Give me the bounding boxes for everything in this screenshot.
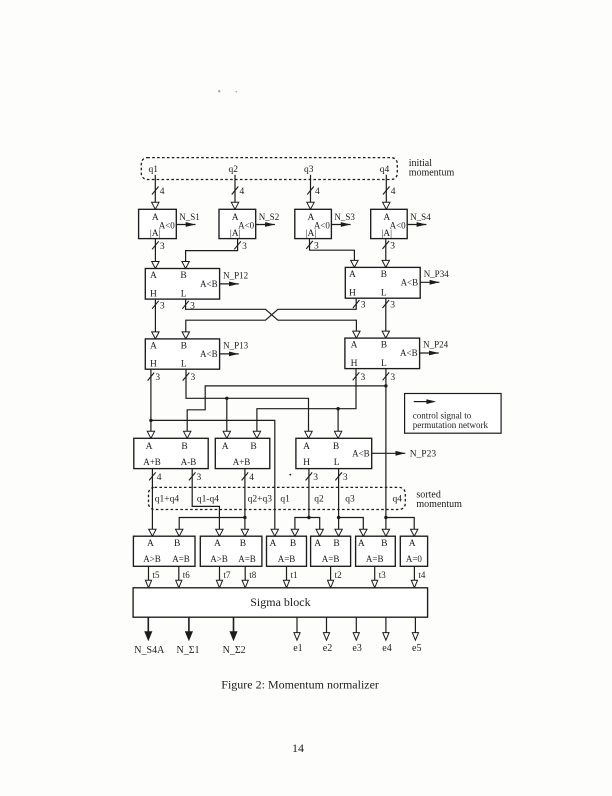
wire q1 to S1 with bus width 4 — [152, 175, 165, 210]
control output N_S1 of S1 — [176, 212, 200, 227]
svg-text:N_P23: N_P23 — [410, 449, 437, 459]
svg-text:H: H — [303, 458, 310, 468]
svg-text:3: 3 — [390, 241, 395, 251]
wire S4 |A| to P34 input B (3 bits) — [382, 239, 395, 268]
wire t3 from comparator to sigma block — [372, 566, 387, 588]
wire P13 H down to adder A1 input A (3 bits), tee to q1 column — [147, 369, 160, 438]
junction dot on P13 L feed at adder A2 branch — [225, 397, 228, 400]
wire S2 |A| to P12 input B (3 bits) — [182, 239, 247, 269]
svg-text:4: 4 — [391, 187, 396, 197]
junction dot on q3 at comparator C5 branch — [337, 516, 340, 519]
scan speck 2 — [218, 90, 220, 92]
svg-text:4: 4 — [160, 187, 165, 197]
page number — [292, 741, 304, 755]
svg-text:A<B: A<B — [400, 348, 418, 358]
svg-text:H: H — [150, 290, 157, 300]
svg-text:e2: e2 — [323, 643, 332, 654]
svg-text:A: A — [150, 342, 157, 352]
svg-text:L: L — [181, 290, 187, 300]
svg-text:q3: q3 — [345, 495, 355, 505]
svg-text:A<B: A<B — [352, 448, 370, 458]
svg-text:A<B: A<B — [401, 278, 419, 288]
svg-text:3: 3 — [160, 242, 165, 252]
wire q1-q4 from adder A1 to comparator C2 input A (3 bits, jog) — [189, 469, 223, 537]
cell label q1 — [280, 495, 290, 505]
svg-text:3: 3 — [242, 242, 247, 252]
svg-text:A: A — [146, 442, 153, 452]
svg-text:permutation network: permutation network — [413, 420, 489, 430]
wire branch P24 L to adder A1 input B (jog left) — [184, 386, 386, 438]
svg-text:control signal to: control signal to — [413, 411, 472, 421]
wire P34 H to P13 input B (crossover, 3 bits) — [182, 298, 366, 339]
abs block S2 (A, A&lt;0, |A|) — [219, 209, 256, 239]
svg-text:3: 3 — [313, 473, 318, 483]
comparator C4 (A B / A=B) — [311, 536, 351, 566]
wire q2+q3 from adder A2 to comparator C2 input B (4 bits) — [241, 469, 254, 537]
label q4 — [380, 165, 390, 175]
svg-text:4: 4 — [240, 187, 245, 197]
wire branch from P24 H down to P23 input B — [334, 409, 341, 439]
svg-text:|A|: |A| — [150, 229, 161, 239]
comparator C6 (A / A=0) — [400, 536, 427, 566]
wire t8 from comparator to sigma block — [242, 566, 257, 588]
scan speck 3 — [235, 91, 237, 93]
wire q3 to S3 with bus width 4 — [307, 175, 320, 210]
svg-text:A+B: A+B — [233, 457, 251, 467]
adder A1 (A B / A+B A-B) — [134, 438, 208, 468]
wire t7 from comparator to sigma block — [216, 566, 231, 588]
label q2 — [229, 165, 239, 175]
svg-text:N_P13: N_P13 — [223, 341, 249, 351]
wire P12 L to P24 input A (crossover, 3 bits) — [182, 299, 360, 338]
cell label q1-q4 — [197, 495, 219, 505]
svg-text:L: L — [181, 360, 187, 370]
junction dot on P24 L at adder A1 branch — [384, 384, 387, 387]
svg-text:A+B: A+B — [143, 457, 161, 467]
signal output e5 — [412, 617, 421, 654]
svg-text:q1+q4: q1+q4 — [155, 495, 180, 505]
svg-text:q3: q3 — [304, 165, 314, 175]
control output N_P23 of P23 — [372, 449, 437, 459]
svg-text:q2: q2 — [229, 165, 239, 175]
wire S3 |A| to P34 input A (3 bits) — [306, 239, 358, 268]
svg-text:A=B: A=B — [172, 554, 190, 564]
svg-text:3: 3 — [390, 301, 395, 311]
svg-text:B: B — [240, 539, 246, 549]
svg-text:A: A — [351, 341, 358, 351]
junction dot on q4 column at comparator C6 branch — [384, 516, 387, 519]
svg-text:t4: t4 — [418, 570, 426, 580]
svg-text:3: 3 — [390, 373, 395, 383]
svg-text:L: L — [334, 458, 340, 468]
abs block S4 (A, A&lt;0, |A|) — [371, 209, 408, 239]
control output N_S3 of S3 — [331, 212, 355, 227]
sigma block — [133, 588, 428, 617]
annotation: sorted momentum — [416, 489, 462, 510]
scan speck — [289, 474, 291, 476]
svg-text:3: 3 — [343, 473, 348, 483]
wire t4 from comparator to sigma block — [411, 566, 426, 588]
label q1 — [149, 165, 159, 175]
svg-text:3: 3 — [361, 301, 366, 311]
svg-text:t1: t1 — [291, 570, 298, 580]
wire branch from P13 L down to adder A2 input A — [223, 398, 230, 438]
svg-text:N_Σ1: N_Σ1 — [177, 645, 200, 656]
wire branch q2+q3 to comparator C1 input B — [176, 518, 245, 537]
svg-text:t7: t7 — [224, 570, 232, 580]
svg-text:A: A — [147, 539, 154, 549]
junction dot on q2 tee — [307, 516, 310, 519]
adder A2 (A B / A+B) — [215, 438, 269, 468]
cell label q2 — [314, 495, 324, 505]
svg-text:B: B — [174, 539, 180, 549]
junction dot on P24 H feed at P23 B branch — [336, 407, 339, 410]
wire P12 H to P13 input A (3 bits) — [152, 299, 165, 339]
svg-text:q1-q4: q1-q4 — [197, 495, 219, 505]
wire t5 from comparator to sigma block — [145, 566, 160, 588]
svg-text:momentum: momentum — [416, 499, 462, 510]
svg-text:14: 14 — [292, 741, 304, 755]
annotation: initial momentum — [409, 158, 455, 179]
svg-text:N_S4: N_S4 — [410, 212, 431, 222]
svg-text:A<B: A<B — [200, 349, 218, 359]
control output N_S4 of S4 — [407, 212, 431, 227]
svg-text:A>B: A>B — [210, 554, 228, 564]
svg-text:N_P24: N_P24 — [423, 340, 449, 350]
abs block S1 (A, A&lt;0, |A|) — [139, 209, 177, 239]
svg-text:t6: t6 — [183, 570, 191, 580]
wire q2 from P23 H, tee to comparators C3 B and C4 A (3 bits) — [306, 469, 319, 518]
wire branch q1: right and down to comparator C3 input A — [151, 420, 279, 536]
svg-text:q4: q4 — [393, 495, 403, 505]
svg-text:A<0: A<0 — [390, 221, 407, 231]
comparator P23 (A B / H L, A&lt;B -> N_P23) — [296, 438, 372, 468]
svg-text:4: 4 — [315, 187, 320, 197]
svg-text:e1: e1 — [293, 643, 302, 654]
figure caption — [221, 678, 379, 692]
svg-text:B: B — [290, 539, 296, 549]
comparator P34 (A B / H L, A&lt;B -> N_P34) — [345, 267, 449, 298]
svg-text:A: A — [314, 539, 321, 549]
wire branch q3 to comparator C5 input A — [339, 518, 367, 537]
svg-text:A: A — [409, 539, 416, 549]
svg-text:3: 3 — [191, 373, 196, 383]
svg-text:N_P12: N_P12 — [223, 271, 248, 281]
wire S1 |A| to P12 input A (3 bits) — [152, 239, 165, 269]
cell label q1+q4 — [155, 495, 180, 505]
comparator C2 (A B / A&gt;B A=B) — [200, 536, 262, 566]
junction dot on q2+q3 at comparator C1 branch — [243, 516, 246, 519]
comparator C3 (A B / A=B) — [267, 536, 307, 566]
wire t2 from comparator to sigma block — [328, 566, 342, 588]
bus output N_S4A — [134, 617, 165, 656]
svg-text:3: 3 — [361, 373, 366, 383]
svg-text:B: B — [381, 539, 387, 549]
svg-text:A: A — [358, 539, 365, 549]
svg-text:N_S1: N_S1 — [179, 212, 200, 222]
svg-text:4: 4 — [157, 473, 162, 483]
svg-text:B: B — [333, 442, 339, 452]
svg-text:B: B — [381, 270, 387, 280]
svg-text:q2: q2 — [314, 495, 324, 505]
svg-text:q1: q1 — [149, 165, 159, 175]
svg-text:A>B: A>B — [143, 554, 161, 564]
svg-text:A<0: A<0 — [159, 221, 176, 231]
svg-text:e3: e3 — [352, 643, 361, 654]
svg-text:B: B — [381, 341, 387, 351]
bus output N_Σ2 — [223, 617, 246, 656]
svg-text:A: A — [269, 539, 276, 549]
svg-text:3: 3 — [190, 301, 195, 311]
svg-text:3: 3 — [197, 473, 202, 483]
svg-text:A: A — [150, 271, 157, 281]
signal output e3 — [352, 617, 361, 654]
svg-text:L: L — [381, 359, 387, 369]
svg-text:t8: t8 — [249, 570, 257, 580]
svg-text:H: H — [351, 359, 358, 369]
svg-text:t3: t3 — [379, 570, 387, 580]
abs block S3 (A, A&lt;0, |A|) — [295, 209, 332, 239]
svg-text:A=B: A=B — [366, 554, 384, 564]
svg-text:|A|: |A| — [381, 229, 392, 239]
comparator C5 (A B / A=B) — [356, 536, 396, 566]
wire q1+q4 from adder A1 to comparator C1 input A (4 bits) — [149, 469, 162, 537]
svg-text:3: 3 — [155, 373, 160, 383]
svg-text:|A|: |A| — [230, 229, 241, 239]
svg-text:t5: t5 — [153, 570, 161, 580]
svg-text:3: 3 — [314, 241, 319, 251]
svg-text:A: A — [214, 539, 221, 549]
legend box: control signal to permutation network — [405, 394, 502, 434]
wire P24 L down q4 column to comparator C5 input B (3 bits) — [382, 369, 395, 537]
svg-text:q2+q3: q2+q3 — [248, 495, 273, 505]
svg-text:H: H — [150, 360, 157, 370]
svg-text:B: B — [181, 442, 187, 452]
svg-text:A: A — [303, 442, 310, 452]
cell label q3 — [345, 495, 355, 505]
signal output e1 — [293, 617, 302, 654]
wire t6 from comparator to sigma block — [176, 566, 191, 588]
svg-text:H: H — [349, 289, 356, 299]
junction dot on P13 H at q1 branch — [149, 419, 152, 422]
svg-text:B: B — [180, 271, 186, 281]
svg-text:A-B: A-B — [181, 457, 197, 467]
svg-text:Figure 2: Momentum normalizer: Figure 2: Momentum normalizer — [221, 678, 379, 692]
wire branch q4 to comparator C6 input A — [386, 518, 418, 537]
svg-text:3: 3 — [160, 301, 165, 311]
wire P13 L to adder A2 input A and P23 input A (3 bits) — [183, 369, 312, 438]
dashed box: sorted momentum register — [149, 487, 406, 509]
svg-text:q1: q1 — [280, 495, 290, 505]
wire P24 H to P23 input B and adder A2 input B (3 bits) — [253, 369, 365, 439]
wire q2 to S2 with bus width 4 — [231, 175, 244, 210]
svg-text:Sigma block: Sigma block — [250, 595, 310, 609]
cell label q4 — [393, 495, 403, 505]
svg-text:A: A — [349, 270, 356, 280]
comparator C1 (A B / A&gt;B A=B) — [133, 536, 195, 566]
svg-text:momentum: momentum — [409, 167, 455, 178]
svg-text:A<0: A<0 — [314, 221, 331, 231]
control output N_S2 of S2 — [256, 212, 280, 227]
wire q3 from P23 L to comparator C4 input B (3 bits) — [335, 469, 348, 537]
signal output e4 — [382, 617, 391, 654]
comparator P12 (A B / H L, A&lt;B -> N_P12) — [145, 269, 248, 300]
svg-text:e5: e5 — [412, 643, 421, 654]
wire P34 L to P24 input B (3 bits) — [382, 298, 395, 338]
comparator P24 (A B / H L, A&lt;B -> N_P24) — [345, 338, 449, 369]
svg-text:t2: t2 — [335, 570, 342, 580]
wire q4 to S4 with bus width 4 — [383, 175, 396, 210]
cell label q2+q3 — [248, 495, 273, 505]
comparator P13 (A B / H L, A&lt;B -> N_P13) — [145, 339, 248, 370]
svg-text:A=B: A=B — [238, 554, 256, 564]
svg-text:N_Σ2: N_Σ2 — [223, 645, 246, 656]
svg-text:|A|: |A| — [306, 229, 317, 239]
svg-text:A=B: A=B — [322, 554, 340, 564]
svg-text:A=B: A=B — [278, 554, 296, 564]
svg-text:A: A — [222, 442, 229, 452]
bus output N_Σ1 — [177, 617, 200, 656]
svg-text:N_S3: N_S3 — [334, 212, 355, 222]
dashed box: initial momentum register — [141, 158, 397, 180]
svg-text:A<B: A<B — [200, 279, 218, 289]
svg-text:N_S2: N_S2 — [259, 212, 280, 222]
svg-text:B: B — [333, 539, 339, 549]
wire branch q2 to comparator C4 input A — [309, 518, 324, 537]
svg-text:B: B — [250, 442, 256, 452]
svg-text:e4: e4 — [382, 643, 391, 654]
svg-text:A=0: A=0 — [406, 554, 423, 564]
svg-text:L: L — [381, 289, 387, 299]
wire branch q2 to comparator C3 input B — [291, 518, 309, 537]
svg-text:N_S4A: N_S4A — [134, 645, 165, 656]
svg-text:N_P34: N_P34 — [424, 269, 450, 279]
wire t1 from comparator to sigma block — [283, 566, 297, 588]
svg-text:A<0: A<0 — [238, 221, 255, 231]
signal output e2 — [323, 617, 332, 654]
svg-text:B: B — [181, 342, 187, 352]
label q3 — [304, 165, 314, 175]
svg-text:4: 4 — [249, 473, 254, 483]
svg-text:q4: q4 — [380, 165, 390, 175]
